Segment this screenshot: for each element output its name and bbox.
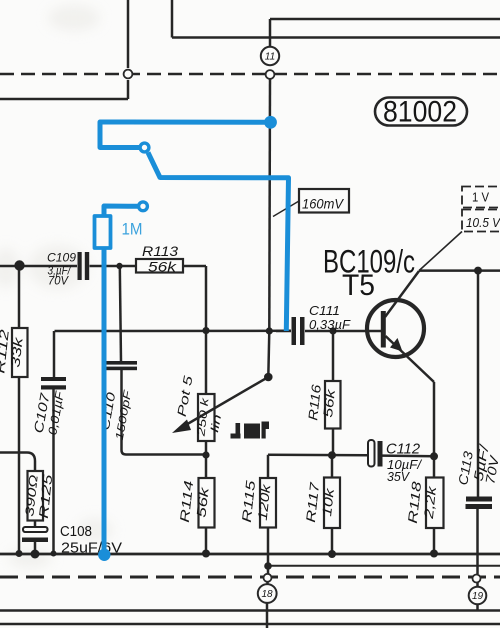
svg-text:81002: 81002 [383,96,457,129]
svg-text:C109: C109 [47,253,77,265]
svg-text:R113: R113 [142,243,178,259]
svg-text:18: 18 [261,589,273,600]
svg-text:C111: C111 [309,304,340,318]
svg-text:10k: 10k [319,486,337,517]
svg-text:19: 19 [472,591,484,602]
svg-text:1 V: 1 V [472,191,490,205]
svg-text:10.5 V: 10.5 V [466,216,500,230]
svg-text:70V: 70V [48,276,69,288]
svg-text:T5: T5 [342,269,375,302]
svg-text:11: 11 [265,52,275,63]
svg-text:56k: 56k [320,387,338,418]
svg-text:56k: 56k [148,259,177,275]
svg-text:25uF/6V: 25uF/6V [61,541,122,557]
svg-text:1M: 1M [122,221,143,239]
svg-text:160mV: 160mV [302,196,345,212]
svg-text:35V: 35V [387,469,410,484]
svg-text:0,33µF: 0,33µF [309,318,351,332]
svg-text:C108: C108 [60,524,92,540]
svg-text:C112: C112 [386,442,420,458]
